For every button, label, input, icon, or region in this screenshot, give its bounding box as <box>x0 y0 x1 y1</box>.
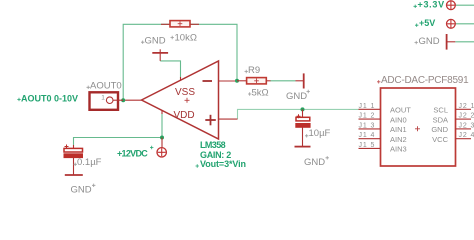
wire noninverting input jog to module AOUT <box>238 109 359 119</box>
label 10kOhm value <box>171 33 197 44</box>
svg-text:5kΩ: 5kΩ <box>252 87 269 98</box>
svg-text:ADC-DAC-PCF8591: ADC-DAC-PCF8591 <box>381 75 469 86</box>
node junction at inverting input <box>235 79 239 83</box>
svg-text:J1 1: J1 1 <box>359 103 376 110</box>
svg-text:J2 2: J2 2 <box>459 113 474 120</box>
pin J1_3 stub <box>359 128 381 130</box>
svg-text:+12VDC: +12VDC <box>117 148 148 158</box>
wire top-right GND rail <box>455 41 474 43</box>
svg-text:AIN2: AIN2 <box>390 135 407 144</box>
pin J2_3 stub <box>456 128 472 130</box>
node junction VDD rail <box>160 136 164 140</box>
resistor R9 <box>237 78 271 84</box>
svg-text:J2 4: J2 4 <box>459 132 474 139</box>
wire VDD rail to +12VDC and bypass cap <box>74 113 163 145</box>
svg-text:J2 1: J2 1 <box>459 103 474 110</box>
supply +5V symbol <box>447 19 456 28</box>
ground under C1 <box>65 174 83 176</box>
label net AOUT0 0-10V <box>17 94 78 104</box>
svg-text:VCC: VCC <box>432 135 448 144</box>
capacitor C2 10uF <box>296 109 310 146</box>
supply +12VDC symbol <box>157 138 166 158</box>
wire +5V rail <box>455 23 474 25</box>
wire R9 to ground <box>270 80 296 82</box>
label 5kOhm value <box>248 87 269 98</box>
label 10uF value <box>305 128 331 139</box>
pin J1_1 stub <box>359 108 381 110</box>
svg-text:GND: GND <box>71 185 92 196</box>
svg-text:AIN1: AIN1 <box>390 125 407 134</box>
label R9 name <box>245 65 261 76</box>
svg-text:VSS: VSS <box>175 87 195 98</box>
pin J1_5 stub <box>359 147 381 149</box>
wire +3.3V rail <box>455 4 474 6</box>
svg-text:SCL: SCL <box>433 106 448 115</box>
ground right of R9 <box>296 73 304 88</box>
ground top-right <box>447 34 456 50</box>
svg-text:GND: GND <box>431 125 448 134</box>
module ADC-DAC-PCF8591 box <box>381 88 456 166</box>
svg-text:GND: GND <box>145 36 166 47</box>
svg-text:0.1µF: 0.1µF <box>77 157 102 168</box>
label GND top-right <box>415 36 440 47</box>
pin J1_2 stub <box>359 118 381 120</box>
label GND under C2 <box>304 156 329 168</box>
ground under C2 <box>295 146 311 148</box>
pin J2_4 stub <box>456 138 472 140</box>
svg-text:J1 5: J1 5 <box>359 142 376 149</box>
label 0.1uF value <box>74 157 102 168</box>
svg-text:GND: GND <box>304 157 325 168</box>
supply +3.3V symbol <box>447 1 456 10</box>
svg-text:R9: R9 <box>248 65 260 76</box>
label +3.3V <box>414 0 445 9</box>
svg-text:J2 3: J2 3 <box>459 122 474 129</box>
label GND right of R9 <box>286 90 310 102</box>
svg-text:10kΩ: 10kΩ <box>175 33 197 44</box>
svg-text:J1 4: J1 4 <box>359 132 376 139</box>
node junction at op-amp output <box>121 98 125 102</box>
label Vout=3*Vin <box>196 159 246 169</box>
node junction on AOUT net above C2 <box>301 107 305 111</box>
svg-text:SDA: SDA <box>433 115 448 124</box>
label GND under C1 <box>71 184 96 196</box>
svg-text:J1 3: J1 3 <box>359 122 376 129</box>
svg-text:LM358: LM358 <box>200 140 226 150</box>
wire feedback net from output up and over to inverting input <box>123 24 237 100</box>
pin J2_2 stub <box>456 118 472 120</box>
label AOUT0 connector name <box>87 81 122 92</box>
svg-text:VDD: VDD <box>174 110 195 121</box>
svg-text:GND: GND <box>419 36 440 47</box>
label module title ADC-DAC-PCF8591 <box>377 75 469 86</box>
svg-text:Vout=3*Vin: Vout=3*Vin <box>200 159 246 169</box>
svg-text:AOUT0: AOUT0 <box>90 81 122 92</box>
svg-text:AOUT0 0-10V: AOUT0 0-10V <box>21 94 78 104</box>
svg-text:AIN3: AIN3 <box>390 145 407 154</box>
ground top-left near op-amp VSS <box>152 49 168 61</box>
pin J2_1 stub <box>456 108 472 110</box>
label GND top-left <box>141 36 166 47</box>
svg-text:+3.3V: +3.3V <box>418 0 445 9</box>
op-amp U1 LM358 <box>123 61 237 139</box>
svg-text:AOUT: AOUT <box>390 106 411 115</box>
label +5V <box>415 18 435 28</box>
pin J1_4 stub <box>359 138 381 140</box>
svg-text:GND: GND <box>286 91 307 102</box>
capacitor C1 0.1uF <box>64 145 83 175</box>
resistor 10k feedback <box>161 21 199 27</box>
svg-text:AIN0: AIN0 <box>390 115 407 124</box>
svg-text:+5V: +5V <box>419 18 435 28</box>
wire VSS pin to GND <box>160 61 180 78</box>
svg-text:1: 1 <box>101 95 105 102</box>
svg-text:J1 2: J1 2 <box>359 113 376 120</box>
label +12VDC <box>117 146 153 159</box>
connector AOUT0 <box>90 92 124 110</box>
svg-text:10µF: 10µF <box>309 128 331 139</box>
